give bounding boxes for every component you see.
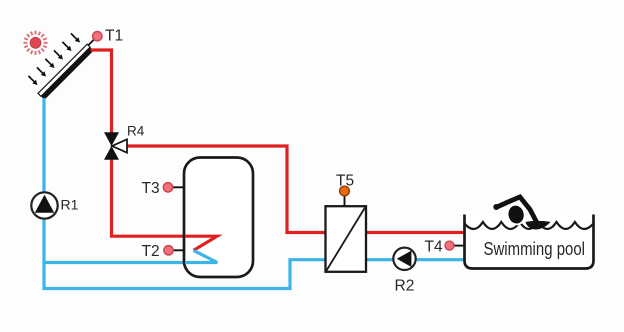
svg-text:T4: T4: [425, 238, 443, 255]
wire: valve to tank coil (red): [112, 159, 218, 250]
sensor T3 dot: [163, 183, 172, 192]
solar collector panel: [38, 44, 94, 100]
svg-text:R1: R1: [61, 197, 79, 213]
sensor T5 dot: [340, 186, 350, 196]
sensor T3 stub: [171, 186, 184, 188]
svg-text:Swimming pool: Swimming pool: [484, 239, 586, 259]
wire: collector return riser, bottom run and HX left-bottom (blue): [44, 98, 326, 289]
pool water wave line: [465, 222, 594, 229]
svg-text:T2: T2: [142, 243, 160, 260]
valve R4: [104, 132, 127, 159]
svg-text:R4: R4: [127, 124, 145, 139]
sensor T4 stub: [452, 245, 464, 247]
sun: [23, 31, 47, 55]
svg-text:R2: R2: [395, 277, 415, 294]
wire: tank coil exit return (blue): [44, 250, 217, 262]
heat exchanger: [326, 206, 367, 272]
sensor T4 dot: [445, 241, 454, 250]
wire: valve to heat exchanger left top (red): [127, 146, 327, 233]
sun ray arrows: [28, 33, 80, 85]
swimmer: [493, 197, 550, 230]
tank coil red segment: [185, 236, 217, 250]
wire: collector hot outlet to valve (red): [91, 50, 112, 133]
wire: heat exchanger right bottom to pool via pump R2 (blue): [366, 258, 464, 261]
svg-text:T1: T1: [105, 28, 123, 45]
sensor T2 stub: [171, 249, 184, 251]
sensor T5 stem: [344, 194, 346, 206]
wire: heat exchanger right top to pool (red): [366, 231, 464, 234]
sensor T2 dot: [164, 246, 173, 255]
pump R1: [31, 192, 57, 218]
tank: [184, 158, 253, 278]
sensor T1 stub: [88, 39, 95, 46]
tank coil blue segment: [185, 250, 217, 262]
sensor T1 dot: [93, 32, 102, 41]
swimming pool walls: [465, 215, 594, 269]
pump R2: [393, 248, 415, 270]
svg-text:T3: T3: [142, 180, 160, 197]
svg-text:T5: T5: [336, 172, 354, 189]
